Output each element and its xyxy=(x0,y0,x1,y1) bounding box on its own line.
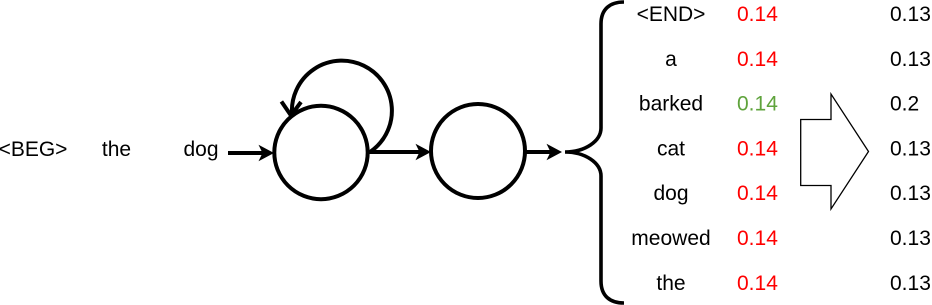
updated probability END 0.13 xyxy=(890,3,931,26)
svg-text:0.14: 0.14 xyxy=(737,182,778,205)
updated probability cat 0.13 xyxy=(890,137,931,160)
input token the xyxy=(102,138,131,161)
svg-text:<BEG>: <BEG> xyxy=(0,138,67,161)
vocab word END xyxy=(637,3,706,26)
probability barked 0.14 green xyxy=(737,93,778,116)
svg-text:0.14: 0.14 xyxy=(737,93,778,116)
wire arrow h2 to output distribution xyxy=(525,144,562,160)
svg-text:0.13: 0.13 xyxy=(890,182,931,205)
svg-text:0.2: 0.2 xyxy=(890,93,919,116)
svg-text:0.14: 0.14 xyxy=(737,227,778,250)
svg-text:0.14: 0.14 xyxy=(737,48,778,71)
svg-text:0.13: 0.13 xyxy=(890,3,931,26)
updated probability a 0.13 xyxy=(890,48,931,71)
svg-text:meowed: meowed xyxy=(631,227,710,250)
RNN state node h2 xyxy=(431,104,525,198)
svg-text:cat: cat xyxy=(657,137,685,160)
vocab word cat xyxy=(657,137,685,160)
svg-text:the: the xyxy=(102,138,131,161)
self-loop recurrent arrow on node h1 xyxy=(281,61,391,152)
svg-text:0.13: 0.13 xyxy=(890,48,931,71)
svg-text:0.14: 0.14 xyxy=(737,272,778,295)
left curly brace for output distribution xyxy=(565,2,624,303)
probability the 0.14 red xyxy=(737,272,778,295)
vocab word the xyxy=(656,272,685,295)
input token dog xyxy=(183,138,218,161)
probability dog 0.14 red xyxy=(737,182,778,205)
RNN state node h1 xyxy=(274,106,367,199)
probability meowed 0.14 red xyxy=(737,227,778,250)
svg-text:barked: barked xyxy=(639,93,703,116)
svg-text:0.13: 0.13 xyxy=(890,272,931,295)
svg-text:0.13: 0.13 xyxy=(890,137,931,160)
vocab word barked xyxy=(639,93,703,116)
updated probability barked 0.2 xyxy=(890,93,919,116)
probability END 0.14 red xyxy=(737,3,778,26)
updated probability dog 0.13 xyxy=(890,182,931,205)
probability a 0.14 red xyxy=(737,48,778,71)
svg-text:dog: dog xyxy=(653,182,688,205)
wire arrow h1 to h2 xyxy=(368,144,431,160)
svg-text:the: the xyxy=(656,272,685,295)
svg-text:0.14: 0.14 xyxy=(737,137,778,160)
block arrow update xyxy=(801,94,869,209)
svg-text:0.14: 0.14 xyxy=(737,3,778,26)
svg-text:<END>: <END> xyxy=(637,3,706,26)
vocab word dog xyxy=(653,182,688,205)
updated probability meowed 0.13 xyxy=(890,227,931,250)
probability cat 0.14 red xyxy=(737,137,778,160)
updated probability the 0.13 xyxy=(890,272,931,295)
wire input arrow dog to state node xyxy=(228,145,274,161)
svg-text:dog: dog xyxy=(183,138,218,161)
input token <BEG> xyxy=(0,138,67,161)
vocab word a xyxy=(665,48,677,71)
svg-text:a: a xyxy=(665,48,677,71)
vocab word meowed xyxy=(631,227,710,250)
svg-text:0.13: 0.13 xyxy=(890,227,931,250)
